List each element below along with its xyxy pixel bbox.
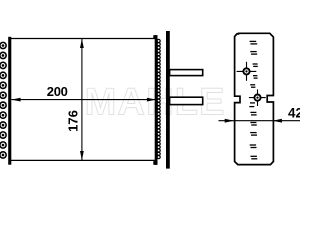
- pipe port circle 2 crosshair: [249, 97, 266, 99]
- dimension 200: right arrowhead: [147, 98, 156, 102]
- front view: right end plate bar: [155, 35, 158, 165]
- front view: serrated fin edge: [157, 39, 160, 42]
- front view: bottom edge line: [10, 159, 156, 161]
- side view outline: [235, 33, 274, 164]
- dimension 42: right arrowhead: [273, 119, 282, 123]
- ring tab row 6 on left header plate: [0, 92, 6, 98]
- ring tab row 11 on left header plate: [0, 142, 6, 148]
- ring tab row 3 on left header plate: [0, 62, 6, 68]
- ring tab row 2 on left header plate: [0, 52, 6, 58]
- front view: top edge line: [10, 38, 156, 40]
- dimension 200: left arrowhead: [11, 98, 20, 102]
- svg-text:42: 42: [288, 106, 300, 121]
- dimension 200: line: [11, 99, 156, 101]
- ring tab row 12 on left header plate: [0, 152, 6, 158]
- ring tab row 1 on left header plate: [0, 42, 6, 48]
- dimension 176: line: [81, 39, 83, 160]
- dimension 42: left arrowhead: [225, 119, 234, 123]
- pipe port circle 1 crosshair: [237, 70, 257, 72]
- dimension 42: line: [219, 120, 301, 122]
- pipe 1 (upper outlet): [170, 70, 203, 76]
- ring tab row 8 on left header plate: [0, 112, 6, 118]
- dimension 176: top arrowhead: [80, 39, 84, 48]
- fin tick marks inside side view: [250, 40, 257, 42]
- svg-text:200: 200: [47, 84, 68, 99]
- ring tab row 7 on left header plate: [0, 102, 6, 108]
- pipe port circle 2: [254, 95, 260, 101]
- front view: right tank wall bar: [166, 31, 170, 169]
- pipe port circle 1: [243, 68, 249, 74]
- ring tab row 9 on left header plate: [0, 122, 6, 128]
- ring tab row 10 on left header plate: [0, 132, 6, 138]
- pipe 2 (lower outlet): [170, 97, 203, 104]
- dimension 176: bottom arrowhead: [80, 151, 84, 160]
- ring tab row 5 on left header plate: [0, 82, 6, 88]
- front view: left header plate bar: [8, 37, 11, 165]
- ring tab row 4 on left header plate: [0, 72, 6, 78]
- svg-text:176: 176: [65, 110, 80, 132]
